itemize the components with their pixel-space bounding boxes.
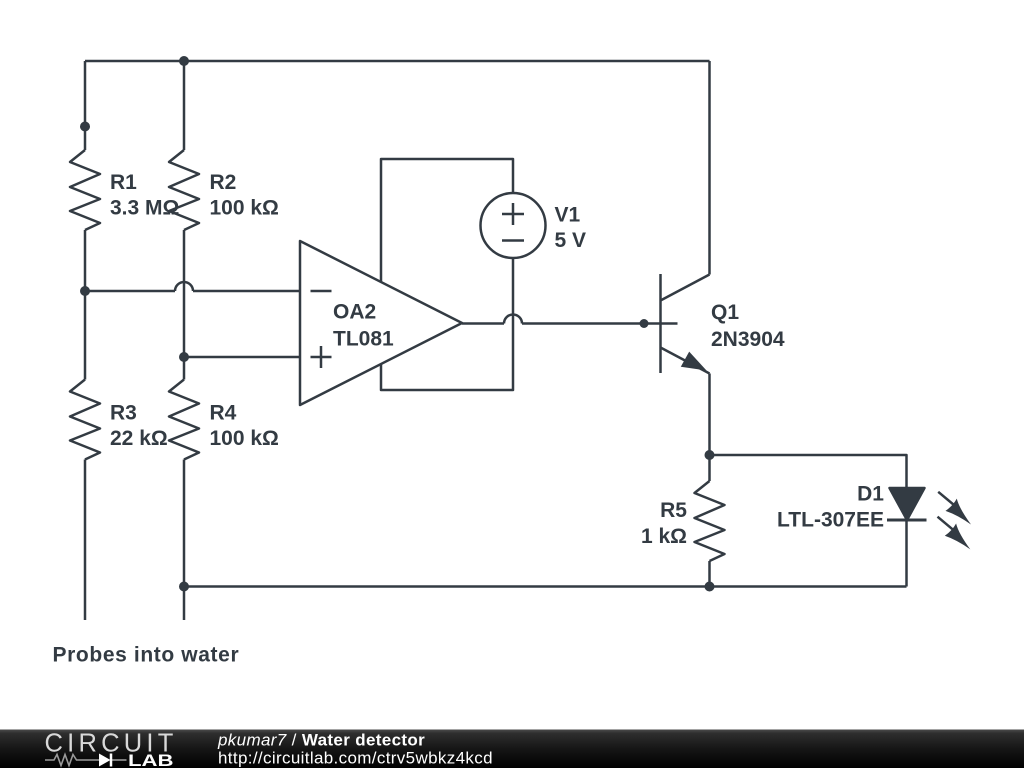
- svg-text:R5: R5: [660, 499, 687, 522]
- svg-text:LTL-307EE: LTL-307EE: [777, 509, 884, 532]
- node dot R5 bottom: [705, 582, 715, 592]
- resistor R5: [695, 481, 725, 561]
- resistor R4: [169, 380, 199, 460]
- transistor Q1 bar: [659, 274, 662, 373]
- V1 minus sign: [502, 239, 524, 242]
- wire bottom rail: [184, 585, 907, 588]
- resistor R2: [169, 150, 199, 230]
- voltage source V1 circle: [481, 193, 546, 258]
- svg-text:22 kΩ: 22 kΩ: [110, 427, 168, 450]
- node dot plus net: [179, 352, 189, 362]
- resistor R3: [70, 380, 100, 460]
- svg-text:LAB: LAB: [128, 751, 174, 768]
- transistor Q1 emitter: [661, 348, 710, 374]
- wire probe right: [183, 460, 186, 621]
- wire to plus input: [184, 356, 300, 359]
- wire to minus input with hop: [85, 282, 300, 291]
- svg-text:V1: V1: [555, 204, 581, 227]
- svg-text:R1: R1: [110, 171, 137, 194]
- svg-text:5 V: 5 V: [555, 229, 587, 252]
- wire left branch top: [84, 61, 87, 150]
- svg-text:R4: R4: [210, 402, 237, 425]
- svg-text:Probes into water: Probes into water: [53, 644, 240, 667]
- transistor Q1 collector: [661, 275, 710, 301]
- svg-text:TL081: TL081: [333, 328, 394, 351]
- op-amp minus sign: [311, 290, 332, 293]
- svg-text:100 kΩ: 100 kΩ: [210, 427, 279, 450]
- svg-text:R3: R3: [110, 402, 137, 425]
- diode D1 cathode bar: [887, 519, 927, 522]
- wire R2 to R4: [183, 230, 186, 380]
- wire collector to top rail: [708, 61, 711, 275]
- LED light arrow 1: [938, 492, 971, 525]
- wire probe left: [84, 460, 87, 621]
- wire op-amp V- supply bottom: [381, 258, 513, 390]
- logo resistor-diode glyph: [45, 755, 127, 766]
- op-amp plus sign: [311, 346, 332, 368]
- wire emitter down: [708, 374, 711, 482]
- wire LED branch top: [710, 455, 907, 488]
- svg-text:OA2: OA2: [333, 301, 376, 324]
- node dot minus net: [80, 286, 90, 296]
- svg-text:pkumar7 / Water detector: pkumar7 / Water detector: [217, 731, 425, 750]
- wire R1 to R3: [84, 230, 87, 380]
- resistor R1: [70, 150, 100, 230]
- svg-text:1 kΩ: 1 kΩ: [641, 525, 687, 548]
- wire top rail: [85, 60, 710, 63]
- wire op-amp V+ supply top: [381, 159, 513, 282]
- svg-text:R2: R2: [210, 171, 237, 194]
- wire LED branch bottom: [905, 520, 908, 587]
- svg-text:3.3 MΩ: 3.3 MΩ: [110, 197, 179, 220]
- V1 plus sign: [502, 203, 524, 225]
- node dot bottom rail junction: [179, 582, 189, 592]
- svg-text:D1: D1: [857, 483, 884, 506]
- svg-text:2N3904: 2N3904: [711, 328, 785, 351]
- logo diode triangle: [99, 754, 111, 767]
- wire R5 bottom: [708, 561, 711, 587]
- node dot base: [640, 319, 649, 328]
- node dot R5 top: [705, 450, 715, 460]
- op-amp OA2 triangle: [300, 241, 462, 405]
- node dot left probe top: [80, 122, 90, 132]
- diode D1 LED triangle: [890, 488, 925, 520]
- logo diode cathode bar: [110, 754, 113, 767]
- svg-text:http://circuitlab.com/ctrv5wbk: http://circuitlab.com/ctrv5wbkz4kcd: [218, 749, 493, 768]
- wire op-amp output to base with hop: [462, 315, 678, 324]
- svg-text:Q1: Q1: [711, 301, 739, 324]
- node dot top rail junction: [179, 56, 189, 66]
- svg-text:100 kΩ: 100 kΩ: [210, 197, 279, 220]
- LED light arrow 2: [938, 517, 971, 550]
- wire R2 branch top: [183, 61, 186, 150]
- transistor Q1 emitter arrow: [681, 352, 707, 371]
